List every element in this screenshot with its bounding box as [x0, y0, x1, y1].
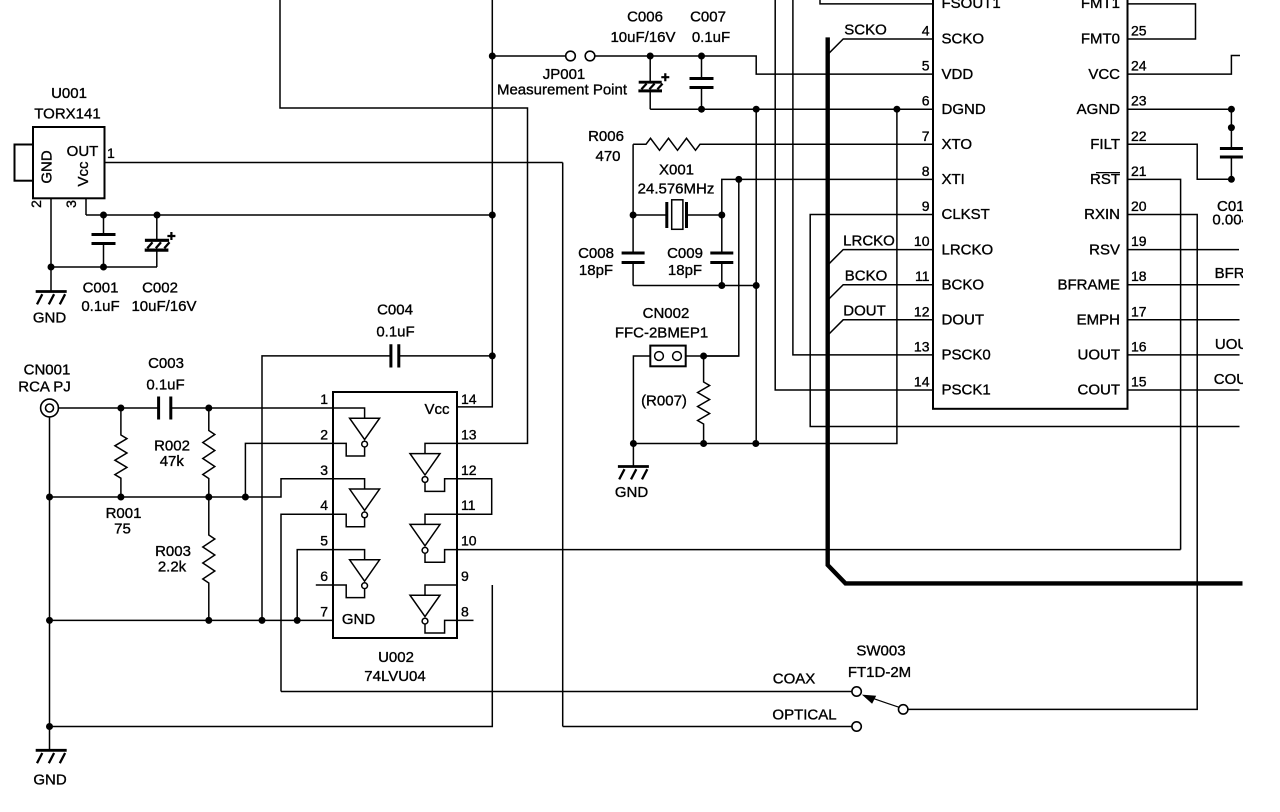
- svg-text:3: 3: [63, 200, 79, 208]
- svg-text:LRCKO: LRCKO: [942, 241, 994, 258]
- svg-text:9: 9: [461, 568, 469, 584]
- wire rail y497 to U002 pin3: [245, 479, 333, 497]
- capacitor C006 electrolytic top lead: [649, 56, 651, 81]
- wire DOUT bus entry: [829, 320, 933, 334]
- switch SW003 COAX terminal: [852, 687, 861, 696]
- capacitor C004 right lead: [399, 355, 493, 357]
- svg-text:AGND: AGND: [1077, 101, 1121, 118]
- svg-text:BCKO: BCKO: [942, 276, 985, 293]
- capacitor C002 plates (JIS polarized, hatched): [145, 232, 176, 250]
- capacitor C003 plates: [159, 397, 171, 420]
- svg-text:2.2k: 2.2k: [158, 559, 187, 576]
- crystal X001 right lead: [687, 214, 722, 216]
- wire signal line C003 to U002 pin1: [171, 407, 333, 409]
- wire U001 OUT pin1 to optical switch column: [105, 162, 563, 164]
- inverter gate U002F input path pin9: [425, 585, 457, 595]
- svg-text:LRCKO: LRCKO: [843, 233, 895, 250]
- svg-text:RSV: RSV: [1089, 241, 1120, 258]
- wire U002 pin14 Vcc feed: [457, 0, 492, 407]
- wire FSOUT1 from top: [820, 0, 933, 4]
- svg-text:13: 13: [461, 426, 477, 442]
- junction dots CN002 ground rail: [630, 440, 637, 447]
- wire U002 pin2 feedback drop: [245, 443, 333, 497]
- wire U002 pin4 to COAX line: [281, 514, 333, 691]
- svg-text:Vcc: Vcc: [424, 401, 450, 418]
- svg-text:RST: RST: [1090, 171, 1120, 188]
- svg-text:8: 8: [922, 163, 930, 179]
- svg-text:20: 20: [1131, 198, 1147, 214]
- svg-text:FILT: FILT: [1090, 136, 1120, 153]
- wire COAX line to switch: [281, 691, 852, 693]
- svg-text:OUT: OUT: [67, 143, 99, 160]
- inverter gate U002C bubble: [362, 583, 368, 589]
- svg-text:C004: C004: [377, 302, 413, 319]
- svg-text:VDD: VDD: [942, 66, 974, 83]
- svg-text:25: 25: [1131, 23, 1147, 39]
- inverter gate U002D output path pin12: [425, 479, 457, 492]
- svg-text:9: 9: [922, 198, 930, 214]
- inverter gate U002E triangle: [410, 524, 440, 545]
- svg-text:18pF: 18pF: [579, 262, 613, 279]
- svg-text:75: 75: [114, 521, 131, 538]
- capacitor C006 plates (JIS polarized, hatched): [638, 73, 669, 91]
- wire PSCK0 vertical from top: [793, 0, 933, 355]
- inverter gate U002D input path pin13: [425, 443, 457, 453]
- svg-text:C008: C008: [578, 245, 614, 262]
- svg-text:OPTICAL: OPTICAL: [772, 707, 836, 724]
- wire DGND drop to crystal ground rail: [755, 109, 757, 443]
- svg-text:6: 6: [922, 93, 930, 109]
- capacitor C002 electrolytic leads: [156, 215, 158, 267]
- svg-text:C006: C006: [627, 9, 663, 26]
- svg-text:DGND: DGND: [942, 101, 986, 118]
- junction dot C004/Vcc column: [489, 352, 496, 359]
- wire VCC net: [1128, 56, 1241, 75]
- wire XTI branch down to CN002: [704, 179, 739, 356]
- svg-text:Vcc: Vcc: [75, 161, 92, 187]
- svg-text:2: 2: [320, 426, 328, 442]
- wire C001/C002 bottom rail: [51, 266, 157, 268]
- junction dot Vcc column top: [489, 53, 496, 60]
- svg-text:XTO: XTO: [942, 136, 973, 153]
- svg-text:RXIN: RXIN: [1084, 206, 1120, 223]
- svg-text:7: 7: [922, 128, 930, 144]
- svg-text:CN001: CN001: [24, 362, 71, 379]
- wire Vcc rail to JP001: [492, 55, 565, 57]
- sheet clip margin right: [1243, 0, 1280, 812]
- svg-text:11: 11: [915, 268, 930, 284]
- svg-text:22: 22: [1131, 128, 1147, 144]
- inverter gate U002A triangle: [350, 418, 380, 439]
- wire RST net down to U002 pin10: [1128, 179, 1181, 549]
- svg-text:VCC: VCC: [1088, 66, 1120, 83]
- svg-text:5: 5: [922, 58, 930, 74]
- wire crystal ground rail: [633, 285, 756, 287]
- crystal X001 left lead: [633, 214, 667, 216]
- switch SW003 OPTICAL terminal: [852, 722, 861, 731]
- svg-text:74LVU04: 74LVU04: [364, 668, 425, 685]
- switch SW003 arm with arrowhead: [862, 695, 899, 708]
- IC U? body: [933, 0, 1128, 409]
- svg-text:19: 19: [1131, 233, 1147, 249]
- capacitor C001 plates: [92, 235, 116, 244]
- svg-text:2: 2: [28, 200, 44, 208]
- inverter gate U002B bubble: [362, 512, 368, 518]
- svg-text:COAX: COAX: [773, 671, 816, 688]
- junction dots AGND column: [1228, 106, 1235, 113]
- svg-text:24: 24: [1131, 58, 1147, 74]
- svg-text:GND: GND: [615, 484, 649, 501]
- svg-text:0.1uF: 0.1uF: [376, 324, 414, 341]
- wire U001 pin3 down to Vcc rail: [85, 198, 87, 215]
- wire CN002 left pin to ground: [633, 356, 650, 466]
- svg-text:0.1uF: 0.1uF: [81, 298, 119, 315]
- bus thick line: [828, 37, 1243, 583]
- svg-text:JP001: JP001: [543, 66, 586, 83]
- svg-text:BCKO: BCKO: [845, 268, 888, 285]
- inverter gate U002A input path pin1: [333, 408, 365, 418]
- svg-text:18: 18: [1131, 268, 1147, 284]
- svg-text:GND: GND: [33, 772, 67, 789]
- svg-text:0.1uF: 0.1uF: [146, 377, 184, 394]
- capacitor C010 leads: [1230, 109, 1232, 179]
- wire divider rail y497: [50, 496, 246, 498]
- svg-text:GND: GND: [342, 611, 376, 628]
- svg-text:GND: GND: [33, 310, 67, 327]
- svg-text:14: 14: [461, 391, 477, 407]
- svg-text:C003: C003: [148, 355, 184, 372]
- connector CN002 pin circles: [655, 352, 664, 361]
- svg-text:12: 12: [914, 303, 930, 319]
- capacitor C009 leads: [721, 215, 723, 286]
- junction dot XTI branch: [735, 176, 742, 183]
- svg-text:C007: C007: [690, 9, 726, 26]
- wire CN001 ground drop: [49, 417, 51, 749]
- svg-text:CLKST: CLKST: [942, 206, 990, 223]
- svg-text:SW003: SW003: [856, 643, 905, 660]
- svg-text:10: 10: [461, 533, 477, 549]
- svg-text:RCA PJ: RCA PJ: [18, 379, 71, 396]
- wire DGND rail to pin6: [650, 108, 933, 110]
- svg-text:47k: 47k: [160, 453, 185, 470]
- svg-text:COUT: COUT: [1078, 382, 1121, 399]
- svg-text:13: 13: [914, 338, 930, 354]
- ground symbol U001: [36, 292, 67, 305]
- svg-text:EMPH: EMPH: [1077, 312, 1120, 329]
- wire LRCKO bus entry: [829, 250, 933, 264]
- capacitor C007 leads: [701, 56, 703, 109]
- svg-text:SCKO: SCKO: [942, 31, 985, 48]
- junction dots input divider: [117, 405, 124, 412]
- junction dots ground rail: [46, 617, 53, 624]
- inverter gate U002E bubble: [422, 547, 428, 553]
- junction dots crystal ground rail: [718, 282, 725, 289]
- svg-text:5: 5: [320, 533, 328, 549]
- capacitor C007 plates: [690, 79, 714, 88]
- switch SW003 common terminal: [899, 705, 908, 714]
- wire RXIN net down to switch common: [908, 215, 1197, 710]
- wire COUT stub: [1128, 389, 1240, 391]
- wire EMPH stub: [1128, 319, 1240, 321]
- capacitor C006 bottom lead: [649, 91, 651, 109]
- svg-text:C009: C009: [667, 245, 703, 262]
- junction dot Vcc rail at U001: [489, 212, 496, 219]
- svg-text:PSCK1: PSCK1: [942, 382, 991, 399]
- wire FILT net: [1128, 144, 1232, 179]
- inverter gate U002B triangle: [350, 489, 380, 510]
- crystal X001 symbol: [667, 200, 687, 230]
- svg-text:16: 16: [1131, 338, 1147, 354]
- svg-text:CN002: CN002: [643, 305, 690, 322]
- svg-text:DOUT: DOUT: [942, 312, 985, 329]
- wire U002 pin13 from top signal: [280, 0, 528, 443]
- junction dot CN002 right node: [700, 353, 707, 360]
- svg-text:SCKO: SCKO: [844, 22, 887, 39]
- capacitor C008 plates: [622, 253, 645, 263]
- inverter gate U002C output path pin6: [333, 585, 365, 598]
- svg-text:10: 10: [914, 233, 930, 249]
- capacitor C001 leads: [103, 215, 105, 267]
- svg-text:18pF: 18pF: [668, 262, 702, 279]
- svg-text:(R007): (R007): [641, 393, 687, 410]
- svg-text:12: 12: [461, 462, 477, 478]
- inverter gate U002D triangle: [410, 454, 440, 475]
- wire U002 pin10 to RST net: [457, 549, 1181, 551]
- svg-text:FMT0: FMT0: [1081, 31, 1120, 48]
- inverter gate U002C triangle: [350, 560, 380, 581]
- wire crystal right up to XTI: [722, 179, 933, 215]
- wire PSCK1 vertical from top: [775, 0, 933, 390]
- capacitor C004 left lead and drop to ground rail: [262, 356, 391, 621]
- wire BCKO bus entry: [829, 285, 933, 299]
- svg-text:4: 4: [320, 497, 328, 513]
- svg-text:Measurement Point: Measurement Point: [497, 82, 628, 99]
- wire JP001 to VDD step: [595, 56, 933, 74]
- junction dot bottom ground: [46, 723, 53, 730]
- wire OPTICAL vertical drop: [562, 163, 564, 727]
- wire U002 pin5 to ground rail: [297, 550, 333, 621]
- svg-text:11: 11: [461, 497, 476, 513]
- connector CN001 RCA PJ symbol: [41, 399, 59, 417]
- junction dot C006 top: [647, 53, 654, 60]
- svg-text:FT1D-2M: FT1D-2M: [848, 664, 911, 681]
- svg-text:FFC-2BMEP1: FFC-2BMEP1: [615, 325, 708, 342]
- svg-text:BFRAME: BFRAME: [1057, 276, 1120, 293]
- resistor R001: [115, 408, 127, 497]
- svg-text:U002: U002: [378, 649, 414, 666]
- svg-text:3: 3: [320, 462, 328, 478]
- junction dots crystal row: [630, 212, 637, 219]
- svg-text:10uF/16V: 10uF/16V: [131, 298, 196, 315]
- svg-text:470: 470: [595, 148, 620, 165]
- capacitor C004 plates: [391, 344, 399, 367]
- wire ground rail y620 to U002 pin7: [50, 619, 334, 621]
- U002 body: [333, 392, 457, 638]
- wire Vcc rail under U001: [86, 214, 492, 216]
- connector CN002 body: [650, 346, 685, 367]
- svg-text:R001: R001: [106, 505, 142, 522]
- svg-text:15: 15: [1131, 374, 1147, 390]
- svg-text:C002: C002: [142, 280, 178, 297]
- junction dots U001 area: [100, 212, 107, 219]
- svg-text:8: 8: [461, 603, 469, 619]
- ground symbol bottom left: [36, 750, 67, 763]
- op-receiver U001 body: [15, 127, 105, 198]
- wire XTO drop to crystal: [632, 144, 634, 215]
- jumper JP001 circles: [566, 51, 576, 61]
- wire CN002 right pin to R007 node: [686, 355, 739, 357]
- wire bottom ground run to U002 pin9 column: [50, 585, 493, 727]
- inverter gate U002F triangle: [410, 595, 440, 616]
- svg-text:4: 4: [922, 23, 930, 39]
- wire U001 pin2 down to ground rail: [50, 198, 52, 291]
- resistor R003: [203, 497, 215, 620]
- wire AGND net: [1128, 108, 1232, 110]
- svg-text:1: 1: [320, 391, 328, 407]
- svg-text:XTI: XTI: [942, 171, 965, 188]
- wire U002 pin8 stub: [457, 619, 474, 621]
- wire FMT1/FMT0 tie: [1128, 4, 1196, 39]
- inverter gate U002E output path pin10: [425, 550, 457, 563]
- capacitor C008 leads: [632, 215, 634, 286]
- wire UOUT stub: [1128, 354, 1240, 356]
- svg-text:DOUT: DOUT: [843, 303, 886, 320]
- inverter gate U002F bubble: [422, 618, 428, 624]
- svg-text:R002: R002: [154, 438, 190, 455]
- svg-text:21: 21: [1131, 163, 1147, 179]
- svg-text:TORX141: TORX141: [34, 106, 100, 123]
- svg-text:U001: U001: [51, 85, 87, 102]
- resistor R007: [698, 356, 710, 444]
- svg-text:23: 23: [1131, 93, 1147, 109]
- resistor R002: [203, 408, 215, 497]
- wire CLKST net: [810, 215, 1239, 427]
- svg-text:14: 14: [914, 374, 930, 390]
- wire U002 pin12 to pin11 cascade: [457, 479, 492, 514]
- svg-text:7: 7: [320, 603, 328, 619]
- inverter gate U002B output path pin4: [333, 514, 365, 527]
- inverter gate U002D bubble: [422, 477, 428, 483]
- svg-text:UOUT: UOUT: [1078, 347, 1121, 364]
- junction dot C007 top: [698, 53, 705, 60]
- resistor R006 in XTO line: [633, 138, 933, 150]
- svg-text:17: 17: [1131, 303, 1147, 319]
- svg-text:1: 1: [107, 145, 115, 161]
- wire BFRAME stub: [1128, 284, 1240, 286]
- capacitor C009 plates: [710, 253, 733, 263]
- svg-text:10uF/16V: 10uF/16V: [610, 29, 675, 46]
- inverter gate U002E input path pin11: [425, 514, 457, 524]
- svg-text:FSOUT1: FSOUT1: [942, 0, 1001, 12]
- svg-text:C001: C001: [83, 280, 119, 297]
- svg-text:24.576MHz: 24.576MHz: [638, 181, 715, 198]
- inverter gate U002B input path pin3: [333, 479, 365, 489]
- wire OPTICAL line to switch: [563, 726, 852, 728]
- svg-text:GND: GND: [39, 150, 56, 184]
- wire DGND drop right column: [633, 109, 897, 443]
- svg-text:FMT1: FMT1: [1081, 0, 1120, 12]
- svg-text:0.1uF: 0.1uF: [692, 29, 730, 46]
- svg-text:R006: R006: [588, 128, 624, 145]
- svg-text:PSCK0: PSCK0: [942, 347, 991, 364]
- inverter gate U002A output path pin2: [333, 443, 365, 456]
- inverter gate U002F output path pin8: [425, 620, 457, 633]
- wire U002 pin6 stub: [316, 584, 333, 586]
- wire signal line jack to C003: [58, 407, 158, 409]
- junction dots DGND rail: [698, 106, 705, 113]
- inverter gate U002A bubble: [362, 441, 368, 447]
- wire SCKO bus entry: [829, 39, 933, 53]
- svg-text:X001: X001: [659, 162, 694, 179]
- ground symbol CN002: [618, 467, 649, 480]
- wire RSV stub: [1128, 249, 1240, 251]
- svg-text:6: 6: [320, 568, 328, 584]
- capacitor C010 plates: [1220, 149, 1243, 158]
- inverter gate U002C input path pin5: [333, 550, 365, 560]
- svg-text:R003: R003: [155, 543, 191, 560]
